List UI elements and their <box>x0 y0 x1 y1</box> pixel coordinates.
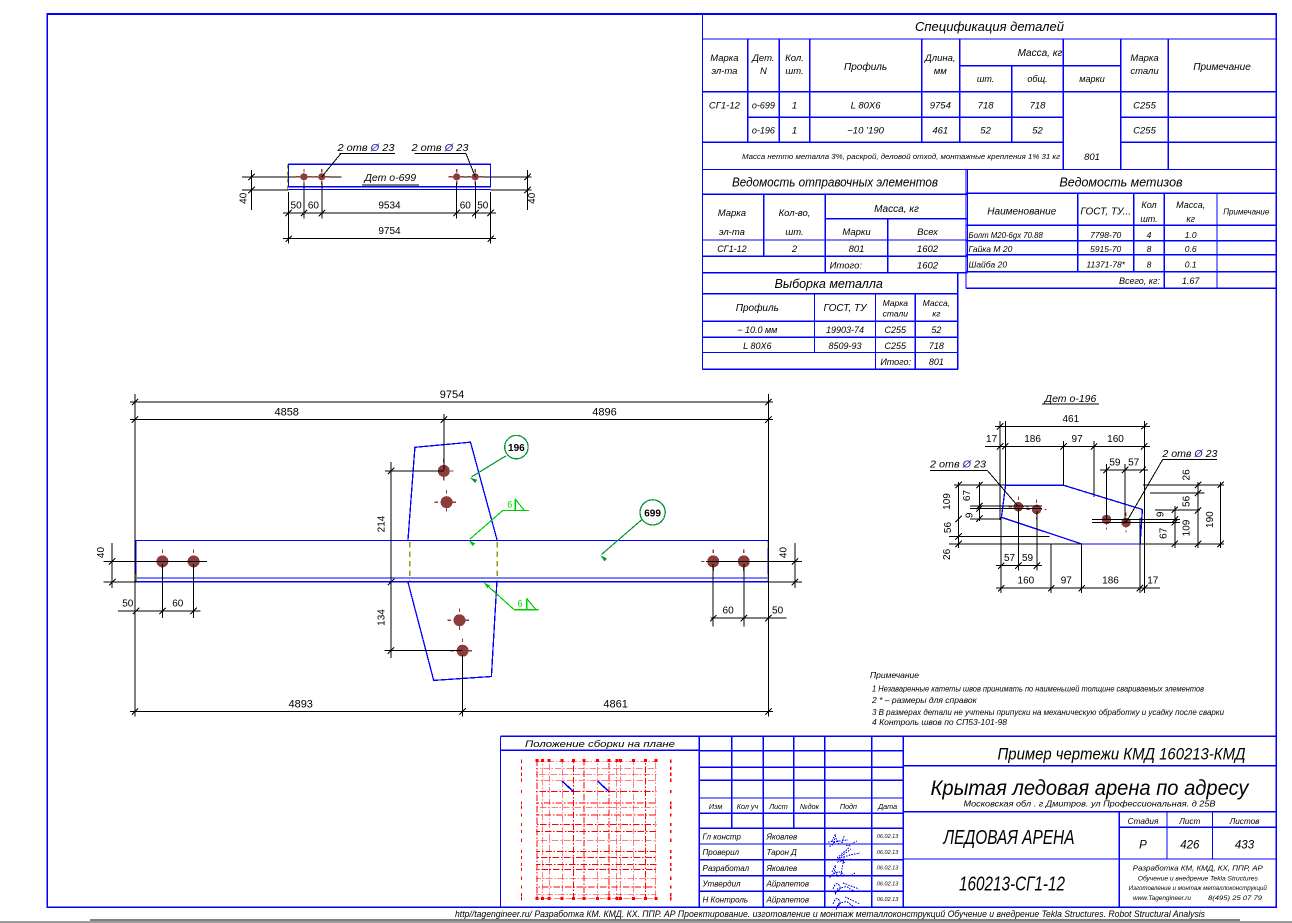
svg-text:56: 56 <box>943 522 954 534</box>
hole callout o-196 left <box>929 459 1018 507</box>
svg-text:Масса,: Масса, <box>1176 200 1205 210</box>
svg-text:160213-СГ1-12: 160213-СГ1-12 <box>959 874 1065 896</box>
svg-text:о-699: о-699 <box>752 101 775 111</box>
svg-text:9754: 9754 <box>440 389 464 401</box>
svg-text:2 отв Ø 23: 2 отв Ø 23 <box>1161 448 1217 460</box>
weld symbol 6 upper <box>469 499 529 546</box>
svg-text:4 Контроль швов по СП53-101-9: 4 Контроль швов по СП53-101-98 <box>872 717 1007 727</box>
dimension 4893/4861 <box>130 655 773 717</box>
svg-text:2 отв Ø 23: 2 отв Ø 23 <box>929 459 986 471</box>
weld symbol 6 lower <box>484 582 539 609</box>
svg-text:9: 9 <box>1156 511 1167 517</box>
svg-text:0.6: 0.6 <box>1185 244 1197 254</box>
svg-text:Разработка КМ, КМД, КХ, ППР, А: Разработка КМ, КМД, КХ, ППР, АР <box>1133 864 1263 873</box>
svg-text:26: 26 <box>1181 469 1192 481</box>
svg-text:196: 196 <box>508 443 525 454</box>
svg-text:кг: кг <box>1186 214 1195 224</box>
svg-text:4: 4 <box>1147 230 1152 240</box>
o-196 extension lines <box>949 421 1224 593</box>
svg-text:Дет о-196: Дет о-196 <box>1044 393 1097 405</box>
svg-text:−10 ’190: −10 ’190 <box>847 126 884 137</box>
svg-text:С255: С255 <box>1133 101 1156 112</box>
svg-text:шт.: шт. <box>1140 214 1157 224</box>
svg-text:1 Незаваренные катеты швов пр: 1 Незаваренные катеты швов принимать по … <box>872 683 1204 693</box>
svg-text:Гайка М 20: Гайка М 20 <box>969 244 1013 254</box>
svg-text:9: 9 <box>965 512 976 518</box>
hole callout 2 отв d23 (right) <box>410 142 475 177</box>
dimension 9754 <box>283 192 496 244</box>
svg-text:Спецификация деталей: Спецификация деталей <box>915 19 1064 34</box>
svg-text:эл-та: эл-та <box>711 66 737 77</box>
svg-text:6: 6 <box>507 500 512 510</box>
table: Спецификация деталей <box>703 14 1277 369</box>
red grid plan <box>522 759 671 900</box>
svg-text:Дет о-699: Дет о-699 <box>363 172 416 184</box>
svg-text:2 отв Ø 23: 2 отв Ø 23 <box>410 142 468 154</box>
svg-text:С255: С255 <box>885 325 908 335</box>
svg-text:Р: Р <box>1139 840 1147 852</box>
svg-text:Ведомость отправочных элементо: Ведомость отправочных элементов <box>732 176 938 190</box>
svg-text:186: 186 <box>1102 576 1119 587</box>
svg-text:Марка: Марка <box>1130 53 1158 64</box>
svg-text:Лист: Лист <box>768 802 788 811</box>
svg-text:160: 160 <box>1107 434 1124 445</box>
svg-text:60: 60 <box>172 599 184 610</box>
svg-text:Всего, кг:: Всего, кг: <box>1119 276 1161 286</box>
dimension 40 right <box>491 170 538 210</box>
svg-text:Итого:: Итого: <box>830 260 863 271</box>
svg-text:Примечание: Примечание <box>1193 62 1251 73</box>
bottom dim chain 160/97/186/17 <box>996 576 1160 592</box>
svg-text:57: 57 <box>1128 457 1140 468</box>
svg-text:Утвердил: Утвердил <box>702 880 742 889</box>
svg-text:06.02.13: 06.02.13 <box>877 897 899 903</box>
svg-text:СГ1-12: СГ1-12 <box>709 101 741 112</box>
svg-text:Марки: Марки <box>842 227 871 238</box>
svg-text:50: 50 <box>772 606 784 617</box>
bottom url line <box>0 909 1292 923</box>
dimension 4858/4896 <box>130 407 773 470</box>
svg-text:Изм: Изм <box>709 802 722 811</box>
svg-text:1602: 1602 <box>917 244 939 255</box>
svg-text:Профиль: Профиль <box>844 61 887 73</box>
svg-text:433: 433 <box>1235 840 1255 852</box>
svg-text:4893: 4893 <box>288 698 312 710</box>
svg-text:Изготовление и монтаж металлок: Изготовление и монтаж металлоконструкций <box>1129 885 1268 892</box>
svg-text:06.02.13: 06.02.13 <box>877 881 899 887</box>
svg-text:С255: С255 <box>1133 126 1156 137</box>
right dim chain 9/67 <box>1156 506 1179 548</box>
hole callout 2 отв d23 (left) <box>322 142 395 177</box>
svg-text:17: 17 <box>986 434 998 445</box>
svg-text:718: 718 <box>978 101 995 112</box>
svg-text:2 * – размеры для справок: 2 * – размеры для справок <box>871 695 978 705</box>
svg-text:0.1: 0.1 <box>1185 259 1197 269</box>
svg-text:шт.: шт. <box>785 66 803 77</box>
dimension 40 left <box>239 170 289 210</box>
dimension chain 50/60/9534/60/50 <box>283 183 496 219</box>
svg-text:Кол-во,: Кол-во, <box>779 208 811 219</box>
svg-text:Масса, кг: Масса, кг <box>1018 48 1063 59</box>
svg-text:17: 17 <box>1147 576 1159 587</box>
svg-text:4861: 4861 <box>603 698 627 710</box>
svg-text:801: 801 <box>849 244 865 255</box>
svg-text:N: N <box>760 66 767 77</box>
svg-text:59: 59 <box>1109 457 1121 468</box>
table: Ведомость метизов <box>966 170 1276 289</box>
signatures <box>828 835 860 910</box>
bolts main view <box>150 459 755 663</box>
svg-text:8: 8 <box>1147 244 1152 254</box>
bolts detail o-699 <box>296 169 483 185</box>
svg-text:ГОСТ, ТУ: ГОСТ, ТУ <box>823 303 868 314</box>
svg-text:Айрапетов: Айрапетов <box>766 880 810 889</box>
svg-text:Проверил: Проверил <box>703 848 740 857</box>
svg-text:60: 60 <box>308 201 320 212</box>
dimension 214/134 <box>376 462 462 658</box>
svg-text:461: 461 <box>932 126 948 137</box>
svg-text:L 80Х6: L 80Х6 <box>743 341 771 351</box>
svg-text:1: 1 <box>792 101 797 112</box>
svg-text:Стадия: Стадия <box>1128 817 1159 826</box>
svg-text:L 80X6: L 80X6 <box>851 101 882 112</box>
svg-text:06.02.13: 06.02.13 <box>877 866 899 872</box>
blue braces on plan <box>562 781 609 791</box>
svg-text:52: 52 <box>1032 126 1043 137</box>
svg-text:Яковлев: Яковлев <box>766 832 798 841</box>
gusset plate (196) lower part <box>408 582 497 681</box>
svg-text:8509-93: 8509-93 <box>828 341 861 351</box>
svg-text:97: 97 <box>1061 576 1073 587</box>
svg-text:Гл констр: Гл констр <box>703 832 742 841</box>
svg-text:Выборка металла: Выборка металла <box>775 277 883 291</box>
svg-text:40: 40 <box>778 547 789 559</box>
svg-text:Яковлев: Яковлев <box>766 864 798 873</box>
svg-text:6: 6 <box>517 599 522 609</box>
svg-text:40: 40 <box>96 547 107 559</box>
table: Ведомость отправочных элементов <box>703 170 968 273</box>
svg-text:Положение сборки на плане: Положение сборки на плане <box>525 739 675 750</box>
svg-text:801: 801 <box>929 357 944 367</box>
svg-text:3 В размерах детали не учтены: 3 В размерах детали не учтены припуски н… <box>872 707 1224 717</box>
callout circle 699 <box>600 500 665 562</box>
svg-text:Крытая ледовая арена по адресу: Крытая ледовая арена по адресу <box>931 777 1250 800</box>
main view: bar СГ1-12 <box>136 541 768 582</box>
svg-text:Лист: Лист <box>1178 817 1200 826</box>
svg-text:Айрапетов: Айрапетов <box>766 895 810 904</box>
svg-text:4858: 4858 <box>274 407 298 419</box>
bolts o-196 <box>1008 497 1136 533</box>
svg-text:Марка: Марка <box>718 208 746 219</box>
svg-text:06.02.13: 06.02.13 <box>877 850 899 856</box>
dimension 60/50 bottom-right <box>710 564 787 627</box>
svg-text:Дет.: Дет. <box>751 53 774 64</box>
svg-text:Разработал: Разработал <box>703 864 750 873</box>
dimension 461 <box>995 414 1150 430</box>
dimension 59/57 top <box>1100 457 1148 473</box>
table: Выборка металла <box>703 273 958 370</box>
dimension 50/60 bottom-left <box>118 564 200 618</box>
svg-text:40: 40 <box>527 192 538 204</box>
svg-text:214: 214 <box>376 515 387 532</box>
svg-text:Кол.: Кол. <box>785 53 804 64</box>
svg-text:134: 134 <box>376 609 387 626</box>
svg-text:− 10.0 мм: − 10.0 мм <box>737 325 777 335</box>
detail o-699 view <box>242 164 532 190</box>
svg-text:Марка: Марка <box>710 53 738 64</box>
right dim chain 26/56/109 <box>1181 469 1201 548</box>
svg-text:9534: 9534 <box>378 201 401 212</box>
svg-text:Пример чертежи КМД 160213-КМД: Пример чертежи КМД 160213-КМД <box>998 745 1246 764</box>
svg-text:Кол уч: Кол уч <box>737 802 759 811</box>
svg-text:Примечание: Примечание <box>1223 208 1270 217</box>
svg-text:Листов: Листов <box>1229 817 1261 826</box>
svg-text:Дата: Дата <box>877 802 897 811</box>
svg-text:Тарон Д: Тарон Д <box>767 848 798 857</box>
hidden gusset edges (dashed) <box>410 542 498 581</box>
svg-text:190: 190 <box>1205 511 1216 528</box>
svg-text:11371-78*: 11371-78* <box>1086 259 1125 269</box>
svg-text:9754: 9754 <box>378 226 401 237</box>
svg-text:5915-70: 5915-70 <box>1090 244 1121 254</box>
callout circle 196 <box>470 435 528 483</box>
svg-text:9754: 9754 <box>930 101 951 112</box>
svg-text:718: 718 <box>1030 101 1047 112</box>
svg-text:Масса, кг: Масса, кг <box>874 204 919 215</box>
svg-text:56: 56 <box>1181 495 1192 507</box>
svg-text:стали: стали <box>1130 66 1159 77</box>
svg-text:1: 1 <box>792 126 797 137</box>
svg-text:109: 109 <box>942 493 953 510</box>
svg-text:60: 60 <box>460 201 472 212</box>
svg-text:ГОСТ, ТУ...: ГОСТ, ТУ... <box>1080 207 1131 218</box>
svg-text:Болт М20-6gх 70.88: Болт М20-6gх 70.88 <box>969 231 1044 240</box>
svg-text:Ведомость метизов: Ведомость метизов <box>1059 176 1183 190</box>
svg-text:№док: №док <box>800 802 820 811</box>
svg-text:59: 59 <box>1022 553 1034 564</box>
svg-text:186: 186 <box>1024 434 1041 445</box>
svg-text:общ.: общ. <box>1027 74 1047 84</box>
svg-text:8: 8 <box>1147 259 1152 269</box>
svg-text:40: 40 <box>239 192 250 204</box>
svg-text:109: 109 <box>1181 519 1192 536</box>
dimension 17/186/97/160 top <box>985 434 1150 450</box>
svg-text:2 отв Ø 23: 2 отв Ø 23 <box>336 142 394 154</box>
title block right <box>903 736 1276 907</box>
svg-text:699: 699 <box>644 508 661 519</box>
svg-text:www.Tagengineer.ru: www.Tagengineer.ru <box>1133 895 1192 902</box>
left dim chain 67/9 <box>962 482 983 522</box>
svg-text:Шайба 20: Шайба 20 <box>969 259 1008 269</box>
svg-text:19903-74: 19903-74 <box>826 325 864 335</box>
svg-text:С255: С255 <box>885 341 908 351</box>
svg-text:эл-та: эл-та <box>719 227 745 238</box>
title block: план box <box>501 736 1277 907</box>
svg-text:стали: стали <box>883 309 909 319</box>
svg-text:о-196: о-196 <box>752 126 775 136</box>
svg-text:Итого:: Итого: <box>880 357 911 367</box>
stamp header row <box>709 802 897 811</box>
svg-text:97: 97 <box>1072 434 1084 445</box>
svg-text:Н Контроль: Н Контроль <box>703 895 749 904</box>
left dim chain 109/56/26 <box>942 482 962 560</box>
doc titles <box>931 745 1268 903</box>
svg-text:26: 26 <box>942 548 953 560</box>
svg-text:ЛЕДОВАЯ АРЕНА: ЛЕДОВАЯ АРЕНА <box>942 827 1075 849</box>
right dim 190 <box>1205 482 1224 548</box>
svg-text:марки: марки <box>1079 74 1104 84</box>
svg-text:06.02.13: 06.02.13 <box>877 834 899 840</box>
svg-text:шт.: шт. <box>977 74 994 84</box>
svg-text:7798-70: 7798-70 <box>1090 230 1121 240</box>
svg-text:57: 57 <box>1004 553 1016 564</box>
svg-text:Длина,: Длина, <box>924 53 955 64</box>
svg-text:кг: кг <box>932 309 940 319</box>
svg-text:52: 52 <box>931 325 941 335</box>
svg-text:718: 718 <box>929 341 944 351</box>
cut marks on bar edges <box>136 542 768 581</box>
svg-text:50: 50 <box>122 599 134 610</box>
svg-text:4896: 4896 <box>592 407 616 419</box>
plate o-196 outline <box>1001 485 1142 544</box>
svg-text:шт.: шт. <box>785 227 803 238</box>
svg-text:160: 160 <box>1018 576 1035 587</box>
svg-text:1.0: 1.0 <box>1185 230 1197 240</box>
svg-text:60: 60 <box>723 606 735 617</box>
svg-text:Профиль: Профиль <box>736 302 779 314</box>
svg-text:1.67: 1.67 <box>1182 276 1201 286</box>
stamp grid <box>699 736 903 907</box>
dimension 40 left main <box>96 543 207 588</box>
dimension 9754 top <box>130 389 773 717</box>
svg-text:СГ1-12: СГ1-12 <box>717 244 746 254</box>
stamp name rows <box>702 832 900 904</box>
svg-text:8(495) 25 07 79: 8(495) 25 07 79 <box>1208 895 1263 902</box>
svg-text:426: 426 <box>1180 840 1200 852</box>
svg-text:Примечание: Примечание <box>870 670 919 680</box>
label Дет о-699 <box>362 172 419 185</box>
svg-text:Кол: Кол <box>1141 200 1156 210</box>
svg-text:Масса,: Масса, <box>923 298 951 308</box>
label Дет о-196 <box>1042 393 1099 405</box>
svg-text:Марка: Марка <box>883 298 909 308</box>
svg-text:52: 52 <box>980 126 991 137</box>
svg-text:461: 461 <box>1062 414 1079 425</box>
bottom dim chain 57/59 <box>996 553 1042 569</box>
svg-text:1602: 1602 <box>917 260 939 271</box>
gusset plate (196) upper part <box>408 442 497 541</box>
svg-text:50: 50 <box>477 201 489 212</box>
svg-text:2: 2 <box>791 244 798 255</box>
svg-text:Обучение и внедрение Tekla St: Обучение и внедрение Tekla Structures <box>1138 875 1259 883</box>
svg-text:67: 67 <box>962 490 973 502</box>
svg-text:мм: мм <box>934 66 948 77</box>
svg-text:Подп: Подп <box>840 802 857 811</box>
svg-text:50: 50 <box>291 201 303 212</box>
svg-text:http//tagengineer.ru/ Разрабо: http//tagengineer.ru/ Разработка КМ. КМД… <box>455 909 1206 919</box>
svg-text:801: 801 <box>1084 152 1100 163</box>
svg-text:67: 67 <box>1159 527 1170 539</box>
hole callout o-196 right <box>1126 448 1217 522</box>
dimension 40 right main <box>706 543 802 588</box>
svg-text:Московская обл . г Дмитров. у: Московская обл . г Дмитров. ул Профессио… <box>964 800 1217 809</box>
svg-text:Масса нетто металла 3%, раскро: Масса нетто металла 3%, раскрой, деловой… <box>742 152 1060 161</box>
notes <box>870 670 1224 727</box>
svg-text:Наименование: Наименование <box>987 207 1056 218</box>
svg-text:Всех: Всех <box>917 227 939 238</box>
